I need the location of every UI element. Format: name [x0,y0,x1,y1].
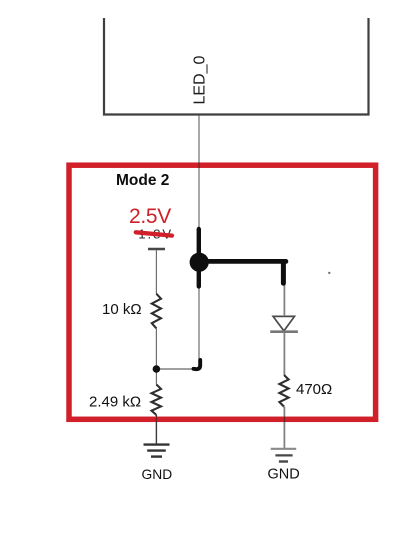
ground right line 2 [275,454,292,456]
red annotation rectangle Mode 2 [69,165,376,419]
wire R2 to ground left [155,415,157,444]
node A junction dot [153,365,161,373]
svg-text:GND: GND [142,467,173,482]
wire supply to R1 [155,250,157,294]
marker J-hook cut mark at node A [194,360,201,369]
wire R3 to ground right [283,407,285,449]
resistor R1 10 kOhm [152,294,161,329]
wire crossing tint over red border bottom left [155,417,157,423]
ground left line 3 [151,455,162,457]
strikethrough marker over 1.8V [136,232,172,235]
svg-text:GND: GND [268,466,300,482]
wire crossing tint over red border top [198,162,200,168]
wire D1 to R3 [283,333,285,375]
svg-text:LED_0: LED_0 [192,55,209,104]
marker horizontal wire to LED branch [199,259,286,264]
ground left line 1 [144,443,170,445]
IC box U1 outline [104,18,369,115]
marker junction blob [190,253,209,272]
wire LED_0 net vertical [198,116,200,370]
svg-text:2.49 kΩ: 2.49 kΩ [89,394,141,411]
svg-text:Mode 2: Mode 2 [116,172,169,189]
diode D1 cathode bar [270,330,298,333]
wire marker end to D1 [283,283,285,316]
diode D1 LED triangle [273,316,294,331]
ground right line 3 [279,460,288,462]
svg-text:470Ω: 470Ω [296,381,332,398]
supply bar 2.5V terminal [148,248,165,251]
wire crossing tint over red border bottom right [284,417,286,423]
wire node A horizontal jog [156,368,199,370]
ground left line 2 [147,449,166,451]
resistor R3 470 Ohm [279,375,288,407]
stray speck artifact [328,272,330,274]
ground right line 1 [271,448,297,450]
marker wire overdraw on LED_0 net [197,229,201,287]
wire R1 to node A and node A to R2 [155,328,157,384]
resistor R2 2.49 kOhm [152,385,162,416]
marker vertical stub down to LED branch [281,262,286,284]
svg-text:2.5V: 2.5V [129,205,171,228]
svg-text:10 kΩ: 10 kΩ [102,301,142,318]
